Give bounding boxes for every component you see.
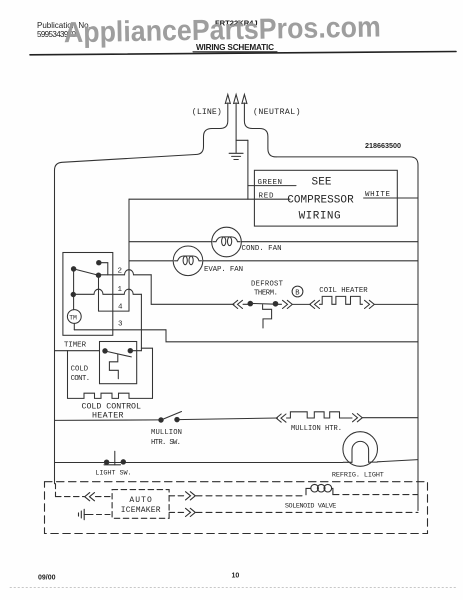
- svg-text:COND. FAN: COND. FAN: [242, 245, 282, 253]
- wire: terminal 3 line: [74, 329, 166, 331]
- connector >> after mullion heater: [353, 414, 363, 422]
- connector << before coil heater: [310, 300, 320, 308]
- svg-text:SOLENOID VALVE: SOLENOID VALVE: [285, 502, 337, 510]
- wire: cond fan line: [129, 241, 418, 243]
- wire: lamp to right border: [377, 460, 418, 462]
- ground prong (middle): [234, 95, 239, 153]
- wire: top-right horizontal to right border: [276, 157, 418, 165]
- wire: dashed drop from left border to icemaker row 1: [55, 484, 57, 497]
- wire: defrost row from timer terminal 2 net: [151, 303, 234, 305]
- wire: GREEN stub: [248, 185, 296, 187]
- svg-text:1: 1: [118, 286, 123, 294]
- svg-text:HEATER: HEATER: [92, 412, 124, 421]
- wire: terminal 4 line: [99, 310, 130, 312]
- defrost thermostat contacts and blade: [248, 301, 278, 306]
- svg-text:(NEUTRAL): (NEUTRAL): [253, 107, 301, 117]
- connector << icemaker row 1: [85, 493, 95, 501]
- wire: icemaker row 2 dashed right: [169, 511, 184, 513]
- connector << before mullion heater: [276, 414, 286, 422]
- icemaker dashed enclosure: [45, 482, 428, 534]
- svg-text:DEFROST: DEFROST: [251, 280, 284, 288]
- wire: right border: [417, 165, 419, 511]
- timer box: [63, 253, 113, 336]
- svg-text:HTR. SW.: HTR. SW.: [151, 439, 181, 447]
- lamp REFRIG. LIGHT: [343, 432, 378, 467]
- svg-text:(LINE): (LINE): [192, 107, 222, 117]
- wire: top-left horizontal to left border: [55, 155, 196, 171]
- motor EVAP. FAN: [173, 246, 203, 276]
- cold control switch box: [100, 342, 137, 384]
- heater COLD CONTROL HEATER loop: left edge and square wave bottom: [68, 351, 153, 399]
- header title underline: [193, 51, 277, 53]
- svg-text:EVAP. FAN: EVAP. FAN: [204, 266, 243, 274]
- wire: WHITE stub to right border: [364, 197, 418, 199]
- defrost thermostat staircase link: [263, 305, 272, 328]
- node B circle: [292, 286, 303, 298]
- wire: left border: [54, 170, 56, 483]
- wire: TM to terminal 3 line: [73, 323, 75, 329]
- wire: row 2 dashed to right border: [196, 511, 418, 513]
- svg-text:THERM.: THERM.: [254, 289, 278, 297]
- timer middle contact: [96, 273, 100, 277]
- svg-text:2: 2: [118, 267, 123, 275]
- wire: branch from ground prong to green vertical: [236, 139, 248, 141]
- connector >> icemaker row 1: [186, 492, 196, 500]
- svg-text:CONT.: CONT.: [71, 375, 91, 383]
- wire: left border to cold control circuit: [55, 350, 100, 352]
- cold control contacts and blade: [103, 349, 133, 357]
- wire: between connectors: [293, 303, 311, 305]
- wire: cold switch to terminal1 net vertical: [130, 350, 141, 352]
- heater COIL HEATER square wave: [320, 296, 363, 304]
- svg-text:TIMER: TIMER: [64, 342, 87, 350]
- svg-text:WHITE: WHITE: [365, 191, 390, 199]
- wire: pivot vertical to TM: [73, 269, 75, 310]
- wire: row 1 dashed to solenoid: [196, 495, 306, 497]
- motor COND. FAN: [212, 227, 242, 257]
- timer top contact: [97, 261, 101, 265]
- wire: icemaker row 2 dashed left: [88, 514, 112, 516]
- timer lower pivot contact: [71, 292, 75, 296]
- wire: icemaker row 1 dashed left: [56, 496, 85, 498]
- wire: terminal 3 net step down and east to right border: [166, 330, 418, 342]
- wire: terminal 1 net down: [140, 294, 142, 350]
- connector >> icemaker row 2: [186, 508, 196, 516]
- svg-text:LIGHT SW.: LIGHT SW.: [95, 470, 131, 478]
- svg-text:WIRING: WIRING: [299, 211, 341, 223]
- wire: mullion row from left border: [55, 419, 162, 422]
- svg-text:AUTO: AUTO: [129, 496, 152, 505]
- svg-text:MULLION: MULLION: [151, 429, 182, 437]
- line prong arrow: [196, 95, 231, 155]
- wire: red vertical down to timer terminal 4: [128, 199, 130, 311]
- svg-text:SEE: SEE: [312, 177, 332, 189]
- svg-text:3: 3: [118, 321, 123, 329]
- svg-text:4: 4: [118, 304, 123, 312]
- auto icemaker dashed box: [112, 490, 169, 519]
- wire: dashed to icemaker box: [96, 496, 113, 498]
- neutral prong arrow: [242, 95, 276, 157]
- svg-text:218663500: 218663500: [365, 141, 401, 150]
- svg-text:RED: RED: [259, 193, 274, 201]
- earth ground symbol: [229, 153, 243, 159]
- svg-text:COLD: COLD: [71, 366, 89, 374]
- svg-text:09/00: 09/00: [38, 575, 56, 582]
- header full-width rule: [30, 52, 456, 55]
- wire: icemaker row 1 dashed right: [169, 495, 184, 497]
- connector >> after coil heater: [365, 300, 375, 308]
- wire: terminal 1 line with humps: [73, 289, 141, 294]
- svg-text:COIL HEATER: COIL HEATER: [319, 287, 368, 295]
- wire: evap fan line: [129, 260, 418, 262]
- light switch LIGHT SW.: [104, 451, 126, 465]
- wire: solenoid to right border dashed: [333, 494, 418, 496]
- wire: mullion heater to right border: [341, 417, 418, 419]
- cold control staircase link: [109, 354, 118, 379]
- wire: top contact L-link: [99, 263, 108, 275]
- svg-text:COMPRESSOR: COMPRESSOR: [287, 195, 354, 207]
- timer switch blade: [74, 269, 99, 275]
- svg-text:AppliancePartsPros.com: AppliancePartsPros.com: [64, 11, 382, 49]
- svg-text:ICEMAKER: ICEMAKER: [121, 506, 161, 515]
- svg-text:MULLION HTR.: MULLION HTR.: [291, 425, 342, 433]
- wire: coil heater to right border: [375, 303, 419, 305]
- header publication number text: [37, 21, 91, 39]
- heater MULLION HTR. square wave: [287, 412, 342, 418]
- svg-text:GREEN: GREEN: [258, 179, 283, 187]
- solenoid valve coil: [306, 484, 333, 494]
- wire: terminal 2 net down to defrost row: [150, 275, 152, 305]
- mullion switch contacts and blade: [159, 412, 182, 423]
- connector << defrost left: [233, 300, 243, 308]
- wire: branch to cold heater loop right edge: [141, 348, 152, 398]
- timer motor TM: [67, 310, 81, 324]
- chassis ground icemaker: [79, 509, 89, 519]
- wire: middle contact vertical: [98, 275, 100, 311]
- wire: into defrost switch: [243, 303, 250, 305]
- svg-text:B: B: [295, 290, 300, 298]
- svg-text:COLD CONTROL: COLD CONTROL: [82, 402, 142, 411]
- wire: RED line from timer vertical into box: [129, 198, 290, 200]
- wire: light row from left border: [55, 462, 343, 464]
- compressor box SEE COMPRESSOR WIRING: [254, 170, 397, 226]
- svg-text:TM: TM: [69, 314, 77, 321]
- footer faint dotted rule: [10, 587, 458, 589]
- wire: mullion switch to connector: [177, 418, 278, 420]
- svg-text:REFRIG. LIGHT: REFRIG. LIGHT: [332, 471, 384, 479]
- timer pivot contact: [71, 267, 75, 271]
- connector >> after defrost switch: [283, 300, 293, 308]
- wire: defrost switch to connector: [276, 303, 282, 305]
- svg-text:10: 10: [232, 573, 240, 580]
- wire: terminal 2 line with hump over red vertical: [99, 270, 152, 275]
- wire: green vertical down to red junction: [247, 140, 249, 199]
